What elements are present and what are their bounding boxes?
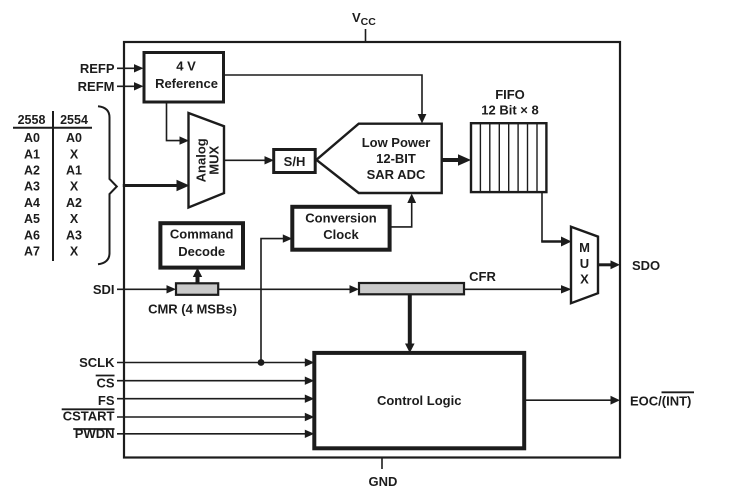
- svg-text:2558: 2558: [18, 113, 46, 127]
- channel table divider: [52, 111, 54, 261]
- svg-text:A1: A1: [66, 164, 82, 178]
- 4 V Reference block: [144, 53, 224, 103]
- wire FS: [117, 395, 314, 403]
- svg-text:Reference: Reference: [155, 76, 218, 91]
- chip boundary: [124, 42, 620, 458]
- channel brace: [98, 106, 117, 264]
- svg-text:A0: A0: [24, 131, 40, 145]
- svg-text:X: X: [70, 180, 79, 194]
- CFR label: [469, 269, 496, 284]
- wire ADC to FIFO (thick): [442, 154, 471, 165]
- junction dot SCLK: [258, 359, 265, 366]
- wire analog mux to S/H: [224, 156, 274, 164]
- wire CMR to Command Decode (thick up arrow): [193, 268, 202, 284]
- svg-text:2554: 2554: [60, 113, 88, 127]
- table row A0 A0: [24, 131, 82, 145]
- CMR register: [176, 283, 218, 295]
- channel table header underline: [13, 127, 92, 129]
- svg-text:GND: GND: [369, 474, 398, 489]
- svg-text:A3: A3: [24, 180, 40, 194]
- REFP label: [80, 61, 115, 76]
- svg-text:SCLK: SCLK: [79, 355, 115, 370]
- svg-text:U: U: [580, 256, 589, 271]
- svg-text:X: X: [580, 272, 589, 287]
- svg-text:Clock: Clock: [323, 227, 359, 242]
- output MUX block: [571, 227, 598, 304]
- svg-text:CFR: CFR: [469, 269, 496, 284]
- S/H block: [274, 150, 316, 173]
- wire CS: [117, 377, 314, 385]
- FIFO label: [481, 87, 538, 117]
- table row A2 A1: [24, 164, 82, 178]
- SDO label: [632, 258, 660, 273]
- wire Control Logic to EOC: [524, 396, 620, 405]
- table row A7 X: [24, 245, 79, 259]
- FS label: [98, 393, 115, 408]
- svg-text:CS: CS: [96, 376, 114, 391]
- CSTART label (with overline): [62, 409, 115, 424]
- table row A6 A3: [24, 228, 82, 242]
- table row A4 A2: [24, 196, 82, 210]
- SDI label: [93, 282, 115, 297]
- svg-text:A2: A2: [24, 164, 40, 178]
- svg-text:A1: A1: [24, 147, 40, 161]
- wire CSTART: [117, 413, 314, 421]
- svg-text:FS: FS: [98, 393, 115, 408]
- svg-text:12-BIT: 12-BIT: [376, 151, 416, 166]
- REFM label: [78, 79, 115, 94]
- svg-text:A4: A4: [24, 196, 40, 210]
- Control Logic block: [314, 353, 524, 448]
- svg-text:Low Power: Low Power: [362, 135, 431, 150]
- svg-text:CMR (4 MSBs): CMR (4 MSBs): [148, 302, 237, 317]
- wire SDI to CMR: [117, 285, 176, 293]
- svg-text:Command: Command: [170, 227, 234, 242]
- wire CFR to output MUX: [464, 285, 572, 293]
- CMR label: [148, 302, 237, 317]
- svg-text:M: M: [579, 240, 590, 255]
- Conversion Clock block: [292, 207, 389, 250]
- wire SCLK: [117, 358, 314, 366]
- wire MUX to SDO: [598, 260, 620, 269]
- analog MUX block: [189, 113, 225, 208]
- svg-text:4 V: 4 V: [176, 58, 196, 73]
- wire reference to ADC top: [224, 75, 427, 124]
- svg-text:VCC: VCC: [352, 10, 376, 28]
- wire CFR to Control Logic (thick down arrow): [405, 294, 415, 353]
- svg-text:Decode: Decode: [178, 244, 225, 259]
- svg-text:A7: A7: [24, 245, 40, 259]
- svg-text:SDI: SDI: [93, 282, 115, 297]
- svg-text:X: X: [70, 147, 79, 161]
- VCC pin wire: [365, 29, 367, 42]
- wire FIFO to output MUX: [541, 192, 571, 246]
- svg-text:REFP: REFP: [80, 61, 115, 76]
- wire SCLK junction to Conversion Clock: [261, 234, 292, 362]
- FIFO block: [471, 123, 546, 192]
- svg-text:Control Logic: Control Logic: [377, 393, 462, 408]
- svg-text:REFM: REFM: [78, 79, 115, 94]
- svg-text:X: X: [70, 212, 79, 226]
- svg-text:12 Bit × 8: 12 Bit × 8: [481, 102, 538, 117]
- PWDN label (with overline): [73, 426, 114, 441]
- analog input bus wire (thick): [123, 180, 190, 191]
- wire Conversion Clock to ADC bottom: [390, 194, 417, 227]
- Command Decode block: [160, 223, 243, 267]
- svg-text:A3: A3: [66, 228, 82, 242]
- CFR register: [359, 283, 464, 294]
- wire PWDN: [117, 430, 314, 438]
- wire reference to analog mux: [167, 102, 190, 145]
- table row A3 X: [24, 180, 79, 194]
- svg-text:FIFO: FIFO: [495, 87, 525, 102]
- channel table header 2558: [18, 113, 46, 127]
- svg-text:EOC/(INT): EOC/(INT): [630, 394, 691, 409]
- svg-text:A0: A0: [66, 131, 82, 145]
- GND pin wire: [381, 458, 383, 470]
- svg-text:Conversion: Conversion: [305, 210, 377, 225]
- table row A5 X: [24, 212, 79, 226]
- ADC block (pentagon): [316, 124, 441, 193]
- svg-text:MUX: MUX: [207, 146, 222, 175]
- svg-text:SAR ADC: SAR ADC: [367, 167, 426, 182]
- svg-text:SDO: SDO: [632, 258, 660, 273]
- channel table header 2554: [60, 113, 88, 127]
- svg-text:CSTART: CSTART: [63, 409, 115, 424]
- table row A1 X: [24, 147, 79, 161]
- EOC/(INT) label: [630, 392, 694, 408]
- VCC label: [352, 10, 376, 28]
- svg-text:X: X: [70, 245, 79, 259]
- wire REFM: [117, 82, 144, 90]
- wire CMR to CFR: [218, 285, 359, 293]
- svg-text:A5: A5: [24, 212, 40, 226]
- SCLK label: [79, 355, 115, 370]
- CS label (with overline): [96, 376, 115, 391]
- svg-text:A2: A2: [66, 196, 82, 210]
- svg-text:S/H: S/H: [284, 154, 306, 169]
- wire REFP: [117, 64, 144, 72]
- GND label: [369, 474, 398, 489]
- svg-text:A6: A6: [24, 228, 40, 242]
